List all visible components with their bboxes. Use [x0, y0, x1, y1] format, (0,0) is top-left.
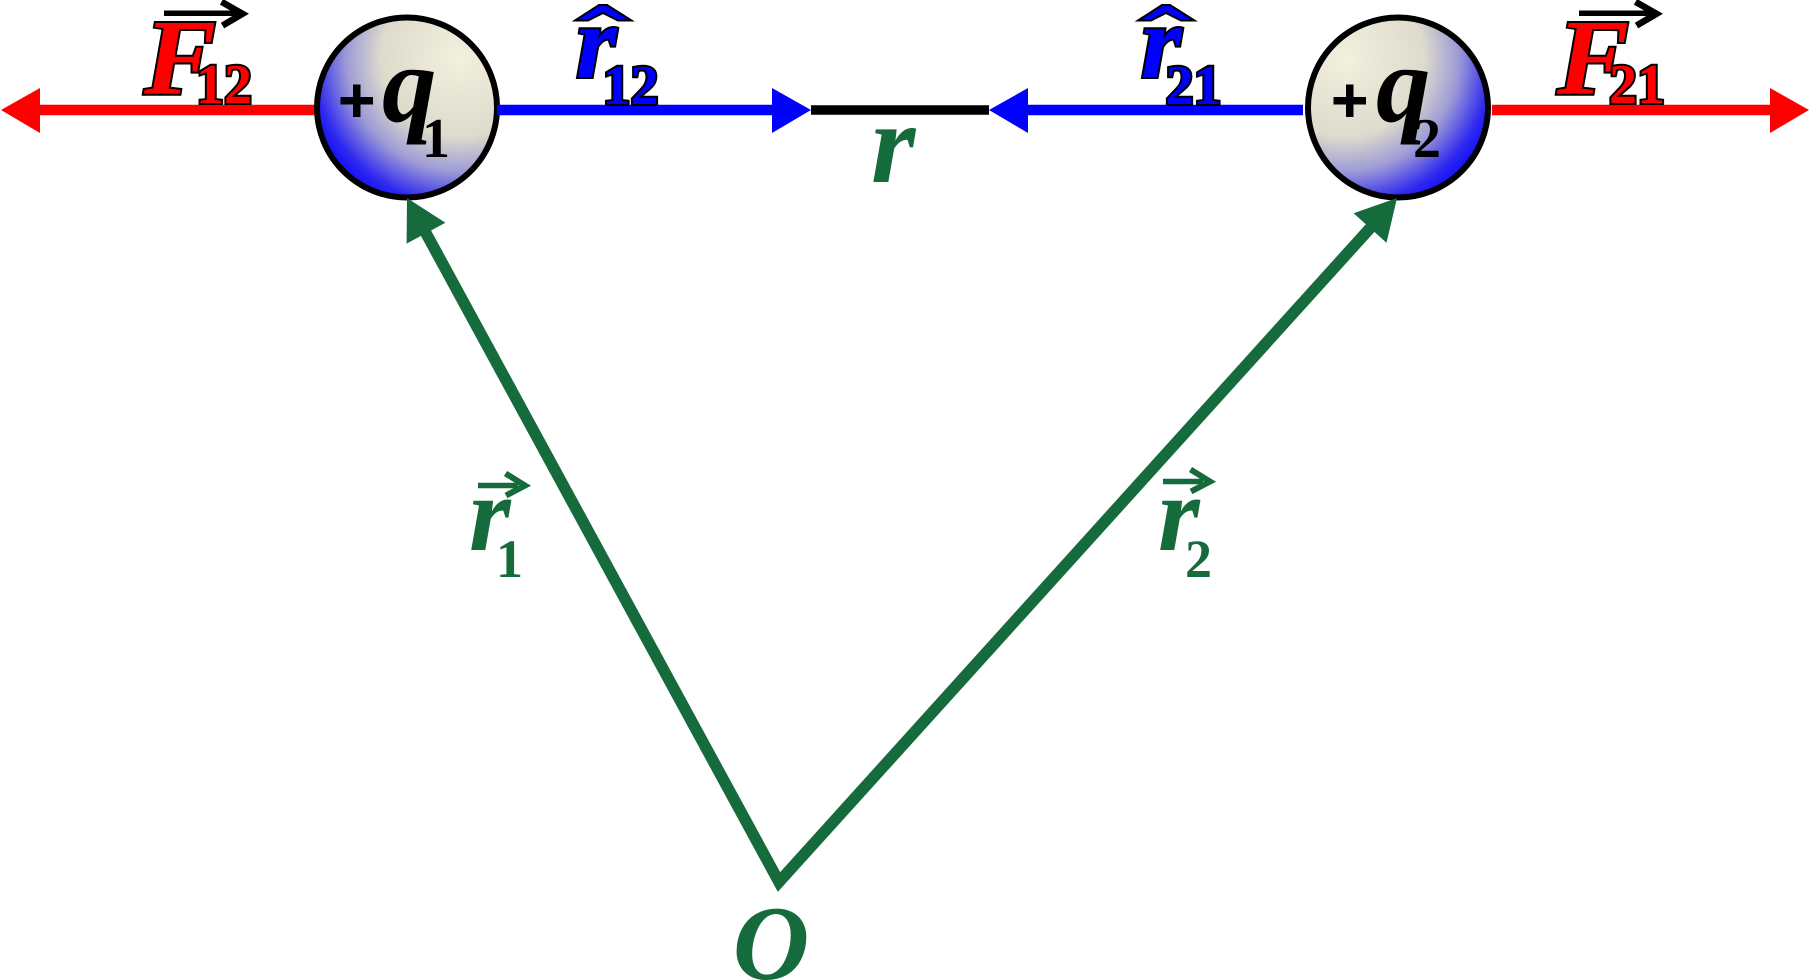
svg-text:12: 12	[603, 55, 659, 117]
label r21 (blue)	[1141, 0, 1222, 117]
hat over r21 (blue chevron)	[1138, 5, 1195, 21]
svg-text:2: 2	[1413, 108, 1441, 170]
svg-text:r: r	[871, 80, 917, 207]
separation line r (black)	[811, 105, 989, 115]
plus sign of q2	[1334, 85, 1367, 118]
charge q1	[317, 18, 497, 198]
label q2 (black)	[1376, 24, 1441, 170]
label F21 (red)	[1556, 0, 1665, 118]
svg-text:O: O	[733, 885, 810, 980]
label r2 (green)	[1158, 456, 1212, 589]
force arrow F21 (red, rightward from q2)	[1492, 88, 1809, 133]
hat over r12 (blue chevron)	[575, 5, 632, 21]
svg-text:12: 12	[196, 54, 252, 116]
svg-text:21: 21	[1166, 55, 1222, 117]
unit vector arrow r12 (blue, rightward)	[497, 88, 811, 133]
label F12 (red)	[143, 0, 252, 118]
svg-text:21: 21	[1609, 54, 1665, 116]
svg-text:2: 2	[1185, 529, 1212, 589]
vector hat arrow over F12 (black)	[164, 2, 243, 26]
plus sign of q1	[341, 85, 374, 118]
label q1 (black)	[382, 24, 450, 170]
small vector arrow over r2 label (green)	[1163, 470, 1210, 492]
label r12 (blue)	[576, 0, 659, 117]
force arrow F12 (red, leftward from q1)	[1, 88, 318, 133]
wire: position vector shafts r1 and r2 (green V from origin O)	[421, 221, 1377, 883]
svg-text:1: 1	[422, 108, 450, 170]
label r1 (green)	[469, 456, 523, 589]
small vector arrow over r1 label (green)	[478, 474, 525, 496]
arrowhead of position vector r2 (at bottom of charge q2)	[1354, 198, 1397, 243]
unit vector arrow r21 (blue, leftward)	[989, 88, 1303, 133]
vector hat arrow over F21 (black)	[1579, 2, 1657, 26]
charge q2	[1308, 18, 1488, 198]
arrowhead of position vector r1 (at bottom of charge q1)	[407, 198, 446, 244]
svg-text:1: 1	[496, 529, 523, 589]
